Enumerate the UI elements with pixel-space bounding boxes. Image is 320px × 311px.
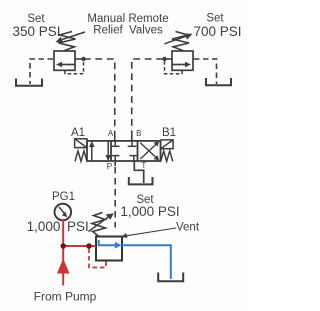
wire: RV1 outlet stub bbox=[75, 58, 84, 60]
tank T4 (vent tank) bbox=[158, 273, 183, 282]
vent leader line bbox=[126, 228, 176, 236]
svg-text:From Pump: From Pump bbox=[34, 290, 97, 304]
RV1 internal arrowhead bbox=[56, 62, 62, 67]
wire: RV1 inlet dashed to tank (left) bbox=[30, 59, 53, 84]
RV2 spring bbox=[172, 32, 189, 51]
svg-text:Vent: Vent bbox=[176, 221, 200, 233]
svg-text:1,000 PSI: 1,000 PSI bbox=[120, 204, 179, 219]
node J2 bbox=[162, 57, 166, 61]
node J1 bbox=[81, 57, 85, 61]
node J3 (red) bbox=[60, 243, 66, 249]
wire: T port to tank bbox=[134, 161, 143, 183]
svg-text:A1: A1 bbox=[71, 127, 85, 139]
solenoid actuator (right) bbox=[161, 140, 173, 149]
RV1 pilot line (dashed loop) bbox=[65, 61, 84, 74]
wire: remote line B (dashed) from RV2 to valve port B bbox=[132, 59, 163, 137]
PG1 needle bbox=[59, 207, 65, 214]
label: Set (right, 700 PSI valve) bbox=[193, 13, 241, 39]
svg-text:A: A bbox=[108, 129, 114, 138]
RV1 adjustment arrow bbox=[59, 32, 85, 41]
svg-text:PG1: PG1 bbox=[52, 191, 75, 203]
tank T3 (below valve) bbox=[129, 177, 153, 184]
RV2 internal flow arrow bbox=[173, 64, 189, 66]
relief valve RV2 (700 PSI) body bbox=[172, 51, 193, 70]
node J4 (red) bbox=[86, 243, 92, 249]
spring actuator (right) bbox=[161, 151, 173, 161]
svg-text:PSI: PSI bbox=[67, 219, 89, 234]
DV1 right position crossed arrows bbox=[140, 143, 156, 159]
svg-text:Relief Valves: Relief Valves bbox=[93, 25, 163, 37]
svg-text:B: B bbox=[136, 129, 141, 138]
RV1 internal flow arrow bbox=[59, 64, 75, 66]
RV3 pilot line (red dashed) bbox=[89, 249, 106, 268]
DV1 center position blocked ports bbox=[111, 141, 138, 161]
wire: RV2 inlet stub bbox=[164, 58, 172, 60]
svg-text:P: P bbox=[107, 161, 113, 171]
wire: remote line A (dashed) from RV1 to valve port A bbox=[84, 59, 115, 137]
RV1 spring bbox=[59, 32, 76, 51]
wire: red pressure line from pump bbox=[62, 220, 96, 286]
RV3 adjustment arrow bbox=[89, 217, 110, 232]
spring actuator (left) bbox=[75, 151, 87, 161]
red flow arrowhead (from pump) bbox=[57, 259, 70, 274]
svg-text:B1: B1 bbox=[162, 127, 176, 139]
main relief valve RV3 body bbox=[96, 237, 122, 261]
svg-text:Set: Set bbox=[206, 13, 224, 25]
svg-text:T: T bbox=[141, 161, 146, 170]
label: title Manual Remote Relief Valves bbox=[87, 13, 168, 37]
tank T1 (top left) bbox=[16, 79, 42, 86]
wire: vent line from port P to main relief valve (dashed) bbox=[114, 161, 116, 166]
RV2 internal arrowhead bbox=[185, 62, 191, 67]
DV1 left position arrows bbox=[92, 141, 108, 161]
tank T2 (top right) bbox=[206, 78, 231, 85]
label: 1,000 PSI (gauge) bbox=[27, 219, 89, 234]
svg-text:Manual Remote: Manual Remote bbox=[87, 13, 168, 25]
svg-text:700 PSI: 700 PSI bbox=[193, 24, 241, 39]
RV2 pilot line (dashed loop) bbox=[165, 61, 183, 74]
pressure gauge PG1 bbox=[55, 204, 72, 221]
wire: RV2 outlet dashed to tank (right) bbox=[194, 59, 217, 84]
wire: blue vent flow through RV3 bbox=[99, 240, 171, 279]
directional valve DV1 body bbox=[87, 141, 161, 161]
svg-text:1,000: 1,000 bbox=[27, 219, 61, 234]
svg-text:350 PSI: 350 PSI bbox=[12, 24, 60, 39]
RV2 adjustment arrow bbox=[165, 35, 190, 44]
label: Set 1,000 PSI bbox=[120, 194, 179, 219]
solenoid actuator (left) bbox=[75, 139, 87, 148]
label: Set (left, 350 PSI valve) bbox=[12, 13, 60, 39]
RV3 spring bbox=[92, 213, 106, 237]
relief valve RV1 (350 PSI) body bbox=[54, 51, 75, 70]
